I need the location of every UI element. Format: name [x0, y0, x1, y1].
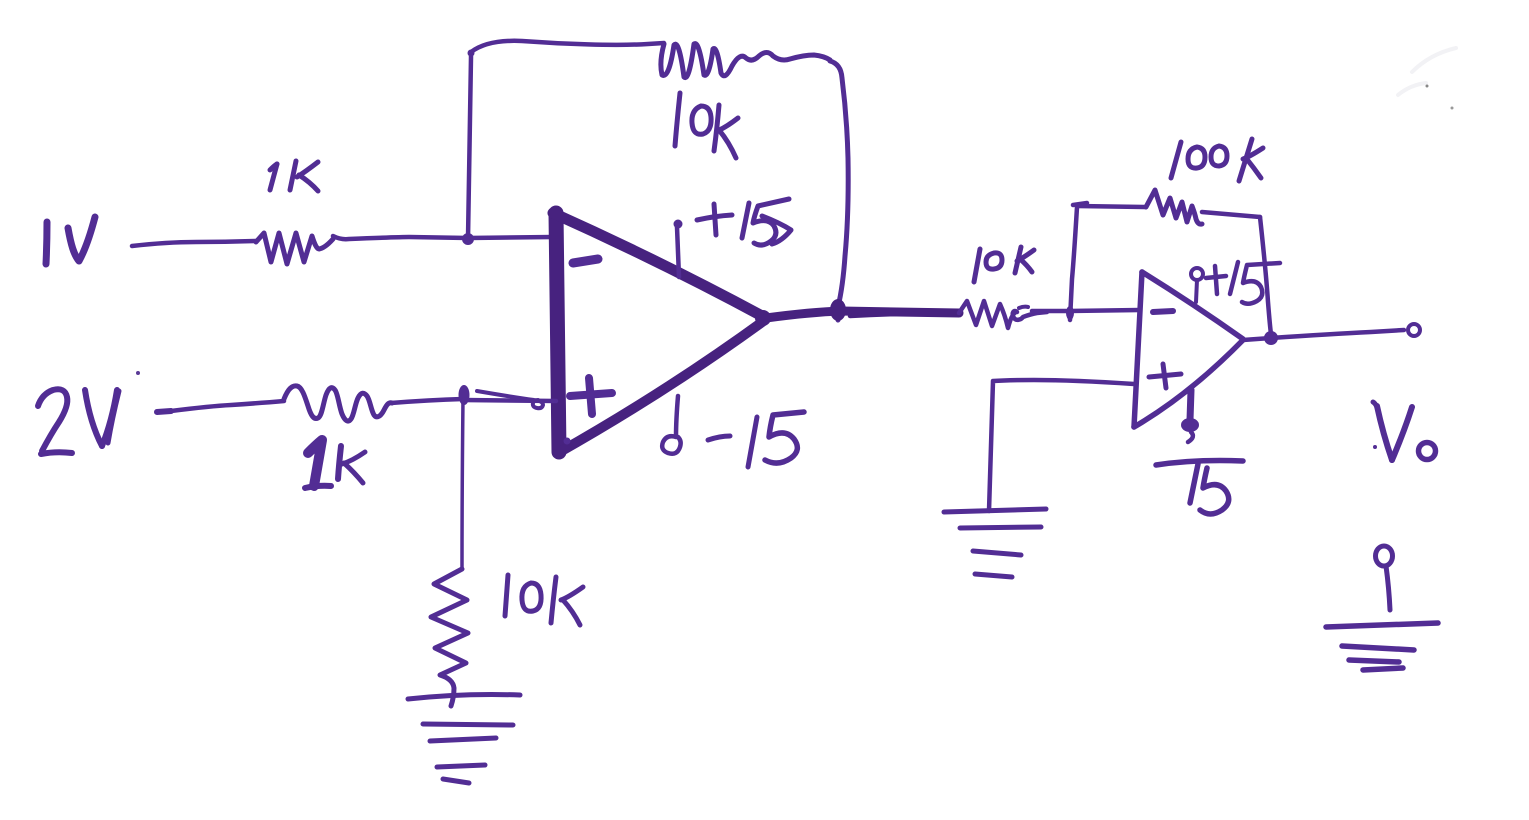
wire node A to U1 inverting input	[468, 237, 553, 238]
label -15 (U1)	[708, 412, 804, 467]
U1 -15 pin	[662, 396, 680, 454]
wire R5 to node C	[1032, 309, 1069, 314]
node C blob	[1066, 306, 1074, 320]
wire U2 output	[1243, 330, 1404, 340]
label 10k (R2)	[675, 93, 738, 158]
op-amp U1 triangle left edge	[556, 213, 559, 452]
terminal Vo	[1408, 324, 1420, 336]
wire U2 + input to ground corner	[989, 380, 1134, 511]
wire R3 to node B	[391, 399, 463, 403]
resistor R4 10k vertical	[431, 569, 468, 706]
label 1V	[46, 217, 95, 264]
wire U1 output (thick)	[766, 311, 959, 318]
wire R6 to corner	[1202, 212, 1260, 217]
label +15 (U2)	[1206, 262, 1280, 304]
op-amp U2 top edge	[1142, 272, 1243, 339]
op-amp U2 left edge	[1134, 272, 1142, 427]
label 10K (R5)	[974, 247, 1034, 282]
op-amp U1 triangle bottom edge	[558, 320, 765, 453]
wire R1 to node A	[333, 236, 468, 239]
resistor R2 10k (top feedback)	[661, 44, 830, 78]
wire feedback down (right side)	[830, 61, 848, 320]
resistor R3 1k	[284, 386, 392, 421]
label 10k (R4)	[505, 575, 583, 625]
label 1K	[270, 161, 318, 191]
label +15 (U1)	[697, 199, 791, 245]
wire node B down	[462, 399, 463, 569]
faint smudge top right	[1398, 48, 1456, 95]
stray dot	[136, 371, 140, 375]
wire feedback U2 up-left	[1070, 207, 1077, 320]
wire node C to U2 inverting input	[1069, 310, 1140, 311]
node B	[459, 385, 470, 405]
terminal ground ref circle	[1376, 546, 1393, 566]
U1 non-inverting input marker	[570, 378, 612, 414]
ground G1	[408, 695, 520, 784]
label 100k	[1171, 139, 1263, 181]
node output U1	[830, 299, 846, 321]
U1 inverting input marker	[573, 259, 598, 263]
label Vo	[1373, 402, 1436, 460]
wire input2	[157, 411, 171, 412]
op-amp U1 apex blob	[755, 310, 771, 326]
resistor R6 100k	[1146, 190, 1202, 224]
resistor R1 1K	[256, 233, 333, 264]
U2 non-inverting input marker	[1149, 364, 1181, 388]
node A	[462, 233, 474, 245]
wire terminal to ground G3	[1386, 566, 1390, 610]
U2 inverting input marker	[1153, 311, 1173, 312]
U2 +15 pin	[1191, 268, 1203, 280]
U1 bottom-left corner dot	[564, 438, 571, 445]
op-amp U1 triangle top edge	[553, 213, 764, 317]
U2 -15 pin	[1190, 390, 1191, 420]
resistor R5 10K	[959, 301, 1047, 328]
label -15 (U2)	[1156, 461, 1243, 515]
wire feedback U2 down	[1260, 217, 1271, 334]
wire corner to R6	[1077, 206, 1146, 207]
ground G2	[944, 509, 1046, 577]
U1 +15 pin	[677, 227, 679, 277]
wire input1	[132, 241, 256, 246]
label 1k (R3)	[305, 440, 365, 488]
ground G3	[1326, 623, 1438, 670]
wire feedback up (left side)	[468, 41, 664, 239]
node D (U2 output junction)	[1264, 331, 1278, 345]
label 2V	[38, 389, 119, 454]
op-amp U2 bottom edge	[1134, 340, 1243, 427]
wire node B to U1 + input	[463, 400, 556, 401]
